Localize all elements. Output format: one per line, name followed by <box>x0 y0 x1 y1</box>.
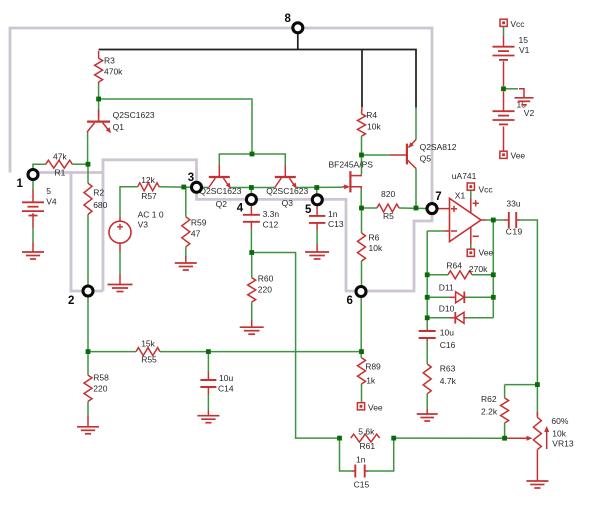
svg-text:R2: R2 <box>93 187 104 197</box>
svg-text:X1: X1 <box>455 190 466 200</box>
svg-text:D11: D11 <box>439 283 454 293</box>
svg-text:V3: V3 <box>138 220 149 230</box>
resistor R59 47 <box>182 217 207 247</box>
svg-text:470k: 470k <box>104 66 123 76</box>
node 3 <box>188 172 202 192</box>
diode D11 <box>439 283 466 304</box>
capacitor C13 1n <box>309 209 344 229</box>
ground V4 <box>22 252 44 259</box>
svg-text:C19: C19 <box>506 227 523 237</box>
svg-text:Q2SC1623: Q2SC1623 <box>266 186 308 196</box>
resistor R63 4.7k <box>423 363 456 394</box>
svg-text:C13: C13 <box>328 219 344 229</box>
resistor R3 470k <box>95 55 124 82</box>
node 6 <box>347 287 367 308</box>
ground C14 <box>197 416 219 423</box>
resistor R89 1k <box>358 358 382 386</box>
node 5 <box>305 195 322 216</box>
svg-text:270k: 270k <box>469 264 488 274</box>
svg-text:R55: R55 <box>141 355 157 365</box>
node 1 <box>17 170 39 191</box>
wire highlighted net node1 to node2 left branch <box>33 173 103 292</box>
capacitor C19 33u <box>506 199 523 237</box>
resistor R1 47k <box>46 151 73 177</box>
component pins red stubs <box>33 36 537 481</box>
ground R60 <box>240 327 264 334</box>
svg-text:R1: R1 <box>55 168 66 178</box>
transistor Q2 Q2SC1623 <box>199 165 241 209</box>
capacitor C12 3.3n <box>243 209 280 230</box>
source V3 AC 1 0 <box>109 210 164 244</box>
svg-text:Vcc: Vcc <box>479 184 494 194</box>
resistor R55 15k <box>136 339 160 365</box>
svg-text:R61: R61 <box>360 441 376 451</box>
terminal Vee at R89 <box>357 403 383 413</box>
node 4 <box>237 195 257 215</box>
svg-text:C15: C15 <box>354 479 370 489</box>
svg-text:Vee: Vee <box>511 151 526 161</box>
wire highlighted net node1-node8-node7 top loop <box>10 28 432 208</box>
svg-text:2: 2 <box>68 295 74 307</box>
svg-text:Q3: Q3 <box>282 198 294 208</box>
svg-text:47k: 47k <box>53 151 67 161</box>
svg-text:4: 4 <box>237 203 244 215</box>
svg-text:Vee: Vee <box>368 403 383 413</box>
svg-text:1: 1 <box>17 178 24 190</box>
svg-text:Q2SC1623: Q2SC1623 <box>113 110 155 120</box>
svg-text:R58: R58 <box>93 373 109 383</box>
node 2 <box>68 286 93 307</box>
terminal Vcc of op-amp <box>467 183 493 194</box>
svg-text:V2: V2 <box>524 108 535 118</box>
source V4 battery 5 <box>22 186 57 215</box>
ground VR13 <box>526 481 548 488</box>
svg-text:33u: 33u <box>506 199 520 209</box>
svg-text:Q1: Q1 <box>113 122 125 132</box>
wire to R4 <box>361 50 363 108</box>
svg-text:2.2k: 2.2k <box>481 407 498 417</box>
svg-text:220: 220 <box>93 384 107 394</box>
svg-text:R64: R64 <box>446 261 462 271</box>
svg-text:15k: 15k <box>141 339 155 349</box>
svg-text:BF245A/PS: BF245A/PS <box>329 159 374 169</box>
svg-text:R6: R6 <box>369 232 380 242</box>
svg-text:12k: 12k <box>141 175 155 185</box>
resistor R4 10k <box>358 110 382 136</box>
svg-text:Vee: Vee <box>479 248 494 258</box>
svg-text:3.3n: 3.3n <box>263 209 280 219</box>
svg-text:220: 220 <box>258 285 272 295</box>
resistor R2 680 <box>84 183 108 214</box>
svg-text:R57: R57 <box>141 191 157 201</box>
svg-text:V1: V1 <box>519 45 530 55</box>
svg-text:V4: V4 <box>46 197 57 207</box>
svg-text:10k: 10k <box>369 243 383 253</box>
svg-text:R60: R60 <box>258 273 274 283</box>
resistor R5 820 <box>377 189 399 221</box>
wire highlighted net node2-node3-node4-node5-node6-node7 <box>103 160 432 291</box>
wire black top rail <box>99 50 416 108</box>
svg-text:R59: R59 <box>191 218 207 228</box>
svg-text:3: 3 <box>188 172 194 184</box>
svg-text:R63: R63 <box>440 363 456 373</box>
resistor R62 2.2k <box>481 394 509 423</box>
svg-text:10u: 10u <box>440 328 454 338</box>
capacitor C14 10u <box>200 373 233 394</box>
svg-text:1n: 1n <box>356 454 366 464</box>
terminal Vee below V2 <box>500 151 526 161</box>
svg-text:C12: C12 <box>263 220 279 230</box>
terminal Vcc top right <box>500 19 525 29</box>
wire green segments <box>33 27 537 472</box>
svg-text:10u: 10u <box>219 373 233 383</box>
svg-text:C16: C16 <box>440 340 456 350</box>
svg-text:Q5: Q5 <box>420 154 432 164</box>
svg-text:R3: R3 <box>104 55 115 65</box>
svg-text:1n: 1n <box>328 209 338 219</box>
capacitor C16 10u <box>419 328 456 350</box>
svg-text:R5: R5 <box>383 211 394 221</box>
ground R63 <box>417 414 438 421</box>
ground R58 <box>77 427 99 434</box>
wire node 8 stub <box>297 33 299 50</box>
resistor R57 12k <box>138 175 160 201</box>
svg-text:60%: 60% <box>551 416 568 426</box>
svg-text:Vcc: Vcc <box>510 19 525 29</box>
svg-text:6: 6 <box>347 295 353 307</box>
svg-text:C14: C14 <box>218 384 234 394</box>
svg-text:uA741: uA741 <box>452 171 477 181</box>
potentiometer VR13 10k 60% <box>507 416 574 450</box>
svg-text:15: 15 <box>519 35 529 45</box>
svg-text:R89: R89 <box>365 361 381 371</box>
ground supply mid <box>515 98 534 105</box>
svg-text:820: 820 <box>381 189 395 199</box>
ground R59 <box>175 263 197 270</box>
svg-text:Q2SA812: Q2SA812 <box>420 142 457 152</box>
svg-text:1k: 1k <box>366 376 376 386</box>
ground V3 <box>108 285 133 292</box>
svg-text:D10: D10 <box>439 303 455 313</box>
resistor R64 270k <box>446 261 488 279</box>
svg-text:R62: R62 <box>481 394 497 404</box>
svg-text:Q2: Q2 <box>216 199 228 209</box>
resistor R6 10k <box>358 232 383 261</box>
transistor Q3 Q2SC1623 <box>266 165 308 208</box>
svg-text:8: 8 <box>285 13 292 25</box>
svg-text:4.7k: 4.7k <box>440 376 457 386</box>
source V2 battery 15 <box>493 99 535 124</box>
node 8 <box>285 13 303 33</box>
svg-text:680: 680 <box>93 200 107 210</box>
capacitor C15 1n <box>354 454 370 489</box>
diode D10 <box>439 303 466 323</box>
node 7 <box>427 191 442 214</box>
svg-text:5: 5 <box>305 204 312 216</box>
ground C13 <box>305 252 329 259</box>
op-amp X1 uA741 <box>450 171 482 249</box>
svg-text:VR13: VR13 <box>552 438 574 448</box>
resistor R58 220 <box>84 373 109 402</box>
svg-text:5.6k: 5.6k <box>358 426 375 436</box>
svg-text:5: 5 <box>46 186 51 196</box>
resistor R61 5.6k <box>351 426 380 451</box>
source V1 battery 15 <box>493 35 530 60</box>
wire R4 top red pin <box>361 107 364 114</box>
svg-text:R4: R4 <box>366 110 377 120</box>
transistor Q1 Q2SC1623 <box>87 110 155 134</box>
svg-text:7: 7 <box>435 191 441 203</box>
transistor Q4 BF245A/PS JFET <box>329 159 374 192</box>
resistor R60 220 <box>248 273 274 302</box>
svg-text:10k: 10k <box>367 121 381 131</box>
terminal Vee of op-amp <box>467 248 493 258</box>
svg-text:AC 1 0: AC 1 0 <box>138 210 164 220</box>
svg-text:10k: 10k <box>552 429 566 439</box>
transistor Q5 Q2SA812 PNP <box>406 140 457 169</box>
svg-text:Q2SC1623: Q2SC1623 <box>199 186 241 196</box>
svg-text:47: 47 <box>191 229 201 239</box>
